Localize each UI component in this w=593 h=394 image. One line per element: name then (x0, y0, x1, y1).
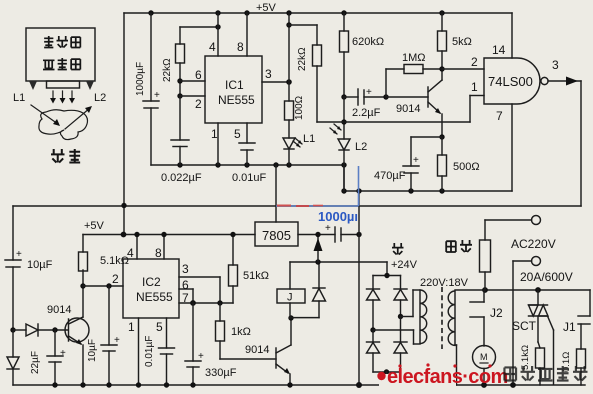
wire to 22k2 top (289, 24, 317, 26)
capacitor 330uF (185, 303, 237, 385)
wire bridge + riser (386, 262, 388, 276)
svg-text:620kΩ: 620kΩ (352, 36, 384, 48)
wire 74LS00 pin1 route (470, 96, 484, 123)
svg-text:1: 1 (128, 320, 135, 334)
node pin2/5.1k/collector (80, 283, 85, 288)
beam arrow to L2 (65, 106, 92, 129)
wire emitter node left to 470uF and 500R (411, 136, 442, 138)
bridge bottom bar (373, 369, 401, 385)
gray watermark dianzifashaoyou (504, 366, 587, 381)
svg-text:3: 3 (552, 58, 559, 72)
node 620k/2.2uF (341, 94, 346, 99)
capacitor 2.2uF (344, 87, 386, 119)
label palm (51, 149, 65, 163)
svg-text:22kΩ: 22kΩ (162, 58, 173, 82)
svg-text:9014: 9014 (245, 344, 269, 356)
node on +5V rail at 1000uF (148, 10, 153, 15)
node 0.022uF on rail (177, 162, 182, 167)
red logo bullet (377, 372, 385, 380)
diode D2 to ground vertical (7, 330, 19, 385)
node fuse bottom (482, 287, 488, 293)
node GND riser x359 (356, 188, 361, 193)
node bridge ac right (398, 314, 403, 319)
resistor 500R (438, 137, 480, 191)
node x288 tee to 22k2 (286, 22, 291, 27)
svg-text:51kΩ: 51kΩ (243, 270, 269, 282)
diode D6 bridge bottom-left (367, 330, 380, 372)
ground rail right part y191 (344, 190, 512, 192)
diode D5 bridge top-right (394, 276, 407, 317)
svg-text:1MΩ: 1MΩ (402, 52, 426, 64)
air arrows (50, 91, 75, 104)
wire IC2 pin2 line (83, 272, 123, 286)
wire IC2 pin6 route (179, 278, 193, 303)
svg-text:IC2: IC2 (142, 275, 161, 289)
node 10uF2 bottom (106, 382, 111, 387)
dryer outlet rectangle (47, 81, 80, 88)
svg-text:330µF: 330µF (205, 367, 237, 379)
node 500R bottom (439, 188, 444, 193)
svg-text:L2: L2 (355, 141, 367, 153)
svg-text:NE555: NE555 (218, 93, 255, 107)
wire base line to Q1 (386, 96, 428, 98)
resistor 5k snubber (520, 345, 545, 385)
transformer core dashed (441, 287, 443, 349)
svg-text:2.2µF: 2.2µF (352, 107, 381, 119)
motor M (473, 346, 496, 386)
node 0.01uF on rail (244, 162, 249, 167)
svg-text:5: 5 (234, 127, 241, 141)
svg-text:20A/600V: 20A/600V (520, 270, 573, 284)
svg-text:+: + (114, 335, 120, 346)
node triac top (535, 287, 541, 293)
svg-text:J2: J2 (490, 306, 503, 320)
node 22k to pin2 (177, 93, 182, 98)
illustration dryer box (26, 28, 95, 81)
svg-text:7: 7 (182, 291, 189, 305)
wire primary bottom down (455, 345, 457, 385)
wire bridge ac left to transformer bottom (373, 330, 420, 344)
transistor Q2 9014 with circle (47, 286, 89, 385)
transformer T secondary winding (420, 290, 427, 344)
wire primary top to fuse node (455, 289, 485, 291)
node pin1 bottom (136, 382, 141, 387)
wire IC1 pin2 (180, 96, 205, 111)
svg-text:5.1kΩ: 5.1kΩ (520, 345, 531, 370)
svg-text:+: + (154, 90, 160, 101)
node bridge ac left (370, 327, 375, 332)
resistor 5.1k (79, 252, 130, 286)
transistor Q1 9014 (396, 69, 442, 137)
node 7805 input (315, 232, 320, 237)
resistor 1k (216, 303, 251, 359)
svg-text:4: 4 (209, 40, 216, 54)
node pin5 bottom (164, 382, 169, 387)
node 330uF bottom (190, 382, 195, 387)
terminal 20A/600V lower (513, 257, 573, 386)
svg-text:M: M (480, 352, 488, 362)
node left edge joins bottom 5V rail (121, 232, 127, 238)
node 470uF bottom (408, 188, 413, 193)
svg-text:6: 6 (182, 278, 189, 292)
svg-text:8: 8 (237, 40, 244, 54)
node 22k2 branch joins L2 line (341, 119, 346, 124)
wire riser x288 from rail to pin3 (288, 13, 290, 82)
node L1 on rail (286, 162, 291, 167)
resistor 22k first (162, 27, 185, 96)
node on +5V rail at 5k (439, 10, 444, 15)
svg-text:+24V: +24V (391, 259, 418, 271)
op IC2 NE555 box (123, 259, 179, 318)
transformer T primary winding (448, 291, 455, 345)
contact J1 (563, 290, 590, 349)
node diode tee left (10, 327, 15, 332)
beam arrow from L1 (31, 105, 60, 126)
wire IC2 pin8 (155, 232, 167, 260)
node relay/collector (288, 315, 293, 320)
node pin6/pin7/330uF junction (190, 300, 196, 306)
svg-text:2: 2 (112, 272, 119, 286)
photodiode L2 (330, 124, 367, 191)
svg-text:+: + (198, 351, 204, 362)
node 7805 riser on rail (273, 162, 278, 167)
svg-text:7805: 7805 (262, 228, 291, 243)
node L2 on rail corner (341, 162, 346, 167)
node 24V riser tee (315, 259, 320, 264)
capacitor 22uF (30, 330, 66, 385)
svg-text:1: 1 (211, 127, 218, 141)
node ac line bottom (510, 382, 516, 388)
wire IC2 pin4 (127, 232, 140, 260)
node base/1M junction (383, 94, 388, 99)
terminal AC220V upper (485, 216, 556, 252)
node gnd riser bottom (356, 382, 362, 388)
svg-text:3: 3 (265, 67, 272, 81)
diode D series horizontal (13, 324, 68, 336)
svg-text:IC1: IC1 (225, 78, 244, 92)
wire triac gate (548, 316, 554, 384)
svg-text:0.01µF: 0.01µF (144, 336, 155, 367)
svg-text:+5V: +5V (84, 220, 105, 232)
svg-text:+5V: +5V (256, 2, 277, 14)
capacitor C 1000uF electrolytic (135, 13, 160, 165)
node bridge plus (384, 273, 389, 278)
capacitor 0.022uF (161, 96, 202, 184)
transistor Q3 9014 (245, 318, 291, 385)
svg-text:1000µı: 1000µı (318, 209, 358, 224)
svg-text:L2: L2 (94, 92, 106, 104)
svg-text:L1: L1 (13, 92, 25, 104)
gate U1 74LS00 nand (471, 43, 559, 123)
blue highlight wire segment horizontal (276, 205, 359, 207)
wire IC2 pin1 (128, 318, 139, 385)
resistor 100R (285, 82, 306, 138)
wire 74LS00 pin2 (442, 55, 484, 69)
triac SCT (512, 290, 548, 348)
wire 74LS00 pin7 to ground rail (511, 104, 513, 191)
wire 22k top to pin4 line (180, 26, 218, 28)
wire 620k node down to L2 (343, 97, 345, 139)
node on +5V rail at x288 riser (286, 10, 291, 15)
node pin1 on rail (215, 162, 220, 167)
resistor 1M feedback (386, 52, 442, 97)
node L2 bottom on y191 rail (341, 188, 346, 193)
svg-text:5: 5 (156, 320, 163, 334)
capacitor 10uF input (5, 249, 53, 330)
wire IC1 pin1 (211, 123, 218, 165)
bridge top bar (373, 275, 401, 277)
node 22uF bottom (52, 382, 57, 387)
rail bottom right y290 (485, 289, 590, 291)
contact J2 (470, 290, 503, 346)
svg-text:9014: 9014 (396, 103, 420, 115)
node pin3/1k junction (217, 300, 222, 305)
svg-text:+: + (413, 155, 419, 166)
wire long output line across (13, 205, 581, 207)
wire 74LS00 pin14 to +5V (511, 13, 513, 58)
node collector/5k/pin2 (439, 66, 444, 71)
diode D3 flyback (291, 262, 326, 318)
svg-text:100Ω: 100Ω (294, 95, 305, 120)
capacitor 0.01uF on pin5 (232, 123, 267, 184)
relay coil J (277, 262, 305, 318)
capacitor 10uF second (87, 286, 120, 385)
wire 7805 input line (298, 234, 335, 236)
svg-text:SCT: SCT (512, 319, 537, 333)
wire IC2 pin7 line (179, 291, 233, 305)
svg-text:+: + (16, 249, 22, 260)
svg-text:5kΩ: 5kΩ (452, 36, 472, 48)
svg-text:L1: L1 (303, 133, 315, 145)
svg-text:3: 3 (182, 262, 189, 276)
ground rail under IC1 (151, 164, 345, 166)
fuse F (446, 220, 490, 290)
capacitor 470uF (374, 137, 419, 191)
wire bridge ac right to transformer top (401, 290, 421, 317)
diode D4 bridge top-left (367, 276, 380, 331)
svg-text:14: 14 (492, 43, 506, 57)
svg-text:NE555: NE555 (136, 290, 173, 304)
label approx sign (392, 243, 404, 255)
dryer right foot (86, 81, 94, 90)
wire 1k to Q3 base (220, 358, 276, 360)
wire IC1 pin4 (209, 13, 218, 56)
resistor 51k (229, 232, 269, 303)
svg-text:8: 8 (155, 246, 162, 260)
svg-text:22µF: 22µF (30, 351, 41, 374)
+5V top rail (124, 2, 512, 14)
node Q2 emitter bottom (80, 382, 85, 387)
wire 7805 top pin riser (275, 165, 277, 222)
svg-text:470µF: 470µF (374, 170, 406, 182)
wire riser with up arrow to 7805 input (314, 235, 323, 263)
label +5V bottom (83, 220, 105, 252)
op IC1 NE555 box (205, 56, 262, 123)
wire IC1 pin3 (262, 67, 289, 82)
svg-text:+: + (60, 348, 66, 359)
wire +24V distribution line (290, 261, 387, 263)
node emitter (439, 134, 444, 139)
svg-text:9014: 9014 (47, 304, 71, 316)
node left edge tee on long line (121, 203, 126, 208)
watermark knockout over rail (379, 374, 456, 388)
svg-text:1: 1 (471, 80, 478, 94)
red logo elecfans.com (387, 363, 508, 388)
node on +5V rail at pin4 branch (215, 10, 220, 15)
svg-text:500Ω: 500Ω (453, 161, 480, 173)
svg-text:J: J (287, 292, 293, 304)
svg-text:22kΩ: 22kΩ (297, 47, 308, 71)
bottom ground rail (13, 384, 585, 386)
dryer left foot (29, 81, 37, 90)
node pin4/22k tee (215, 24, 220, 29)
wire IC2 pin3 route (179, 262, 220, 303)
svg-text:1000µF: 1000µF (135, 62, 146, 96)
node Q3 emitter bottom (287, 382, 292, 387)
svg-text:10µF: 10µF (27, 259, 53, 271)
wire left drop from long line (12, 206, 14, 260)
capacitor 0.01uF second on pin5 (144, 318, 175, 385)
capacitor 1000uF filter horizontal (325, 223, 359, 242)
node 22uF tee (52, 327, 57, 332)
node on +5V rail at 620k (341, 10, 346, 15)
wire IC1 pin6 (180, 68, 205, 82)
svg-text:0.022µF: 0.022µF (161, 172, 202, 184)
node on gnd riser (356, 232, 361, 237)
svg-text:elecfans·com: elecfans·com (387, 366, 508, 388)
blue highlight wire vertical (358, 166, 360, 206)
node pin3 (286, 79, 292, 85)
resistor 22k second (297, 25, 322, 122)
svg-text:10µF: 10µF (87, 339, 98, 362)
svg-text:0.01uF: 0.01uF (232, 172, 267, 184)
svg-text:4: 4 (127, 246, 134, 260)
svg-text:+: + (366, 87, 372, 98)
wire rail corner down to lower ground rail (343, 165, 345, 191)
svg-text:J1: J1 (563, 320, 576, 334)
wire output down right side (580, 81, 582, 206)
svg-text:+: + (325, 223, 331, 234)
wire IC1 pin8 (237, 13, 247, 56)
palm outline (39, 110, 88, 140)
svg-text:7: 7 (496, 109, 503, 123)
svg-text:74LS00: 74LS00 (488, 74, 533, 89)
node motor bottom (481, 382, 487, 388)
svg-text:AC220V: AC220V (511, 237, 556, 251)
resistor 0.1 right (561, 349, 586, 385)
node bridge minus bottom (384, 382, 389, 387)
svg-text:220V:18V: 220V:18V (420, 277, 469, 289)
wire gnd riser x359 (358, 191, 360, 385)
svg-text:5.1kΩ: 5.1kΩ (100, 255, 129, 267)
resistor 5k (438, 13, 472, 69)
LED L1 (283, 133, 315, 165)
+5V rail bottom section (83, 234, 255, 236)
wire left edge of top section (123, 13, 125, 235)
svg-text:1kΩ: 1kΩ (231, 326, 251, 338)
wire output pin3 with arrow (548, 77, 581, 86)
regulator U 7805 box (255, 222, 298, 246)
node 10uF2 tee on pin2 line (106, 283, 111, 288)
node 22k to pin6 (177, 78, 182, 83)
resistor 620k (340, 13, 385, 97)
svg-text:2: 2 (471, 55, 478, 69)
node on +5V rail at pin8 (244, 10, 249, 15)
wire pin1 long line from 22k2 bottom (317, 121, 470, 123)
diode D7 bridge bottom-right (394, 317, 407, 373)
svg-text:6: 6 (195, 68, 202, 82)
red watermark dashes on wire (277, 205, 323, 208)
svg-text:2: 2 (195, 97, 202, 111)
